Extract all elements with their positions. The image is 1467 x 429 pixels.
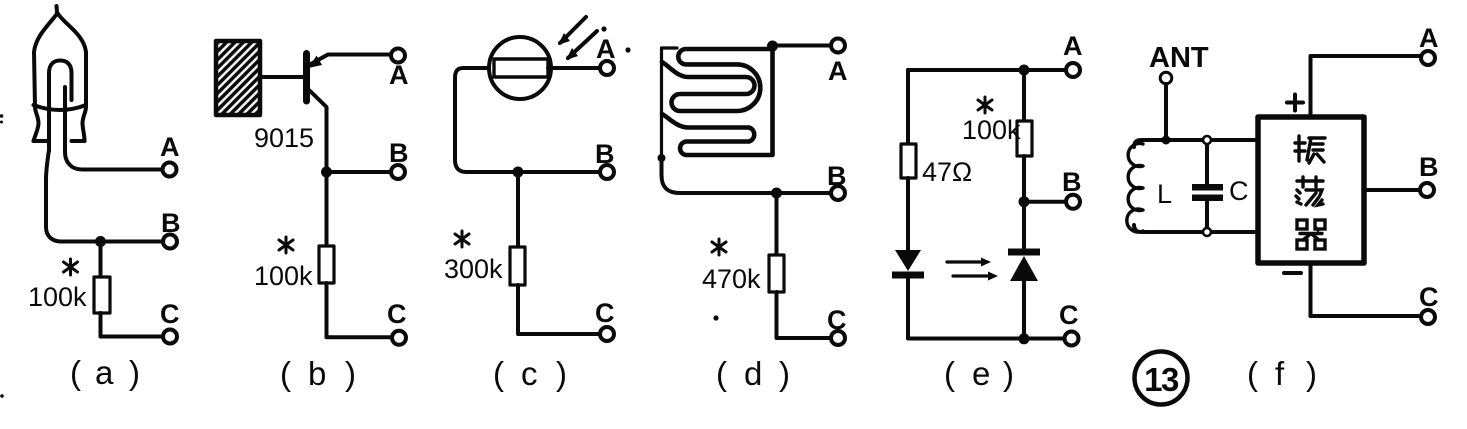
svg-text:d: d [744,355,762,392]
svg-text:(: ( [1247,355,1258,392]
svg-text:13: 13 [1144,361,1179,398]
svg-text:e: e [972,355,990,392]
svg-text:A: A [389,60,409,90]
svg-text:100k: 100k [254,261,313,291]
svg-text:(: ( [493,355,504,392]
svg-text:(: ( [716,355,727,392]
svg-text:470k: 470k [702,264,761,294]
svg-text:9015: 9015 [254,123,314,153]
svg-text:(: ( [70,354,81,391]
svg-text:): ) [129,354,140,391]
svg-text:(: ( [280,355,291,392]
svg-text:): ) [556,355,567,392]
svg-text:100k: 100k [962,115,1021,145]
svg-text:): ) [1003,355,1014,392]
svg-text:B: B [1062,167,1082,197]
svg-text:B: B [1419,152,1439,182]
svg-text:b: b [308,355,326,392]
svg-text:a: a [95,354,114,391]
svg-text:C: C [1229,176,1249,206]
svg-text:C: C [827,305,847,335]
svg-text:A: A [828,56,848,86]
svg-text:A: A [596,34,616,64]
svg-text:C: C [595,298,615,328]
svg-text:100k: 100k [28,282,87,312]
svg-text:300k: 300k [444,254,503,284]
svg-text:B: B [389,138,409,168]
svg-text:(: ( [944,355,955,392]
svg-text:C: C [1419,282,1439,312]
svg-text:): ) [1306,355,1317,392]
svg-text:B: B [827,161,847,191]
svg-text:B: B [595,139,615,169]
svg-text:ANT: ANT [1149,42,1209,74]
svg-text:47Ω: 47Ω [922,157,972,187]
svg-text:C: C [160,299,180,329]
svg-text:B: B [161,208,181,238]
svg-text:A: A [160,132,180,162]
svg-text:): ) [779,355,790,392]
svg-text:A: A [1419,23,1439,53]
svg-text:A: A [1063,31,1083,61]
svg-text:): ) [345,355,356,392]
svg-text:C: C [387,299,407,329]
svg-text:f: f [1275,355,1285,392]
svg-text:c: c [521,355,538,392]
svg-text:L: L [1157,179,1172,209]
svg-text:C: C [1059,300,1079,330]
